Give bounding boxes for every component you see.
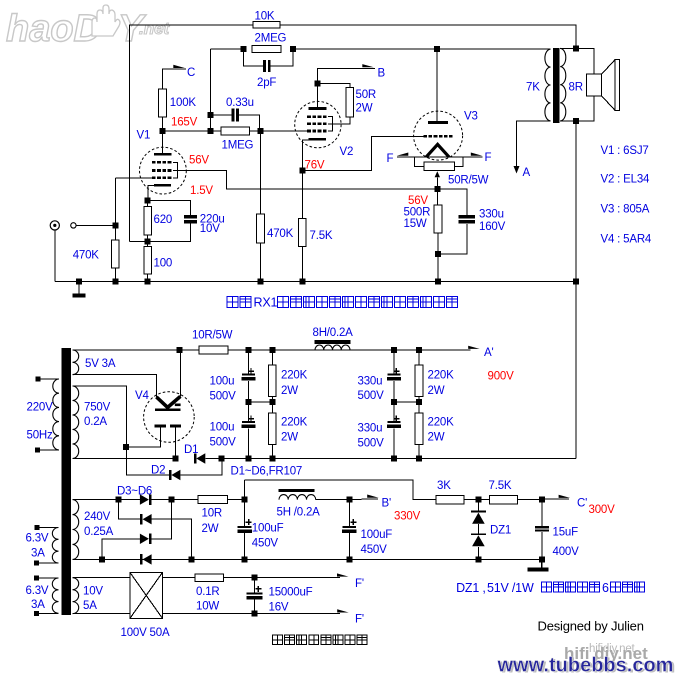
svg-text:500V: 500V [358, 437, 385, 449]
wire secondary top to speaker [576, 48, 594, 74]
wire V4 right plate lead [175, 428, 177, 459]
wire secondary bottom to speaker [576, 96, 594, 121]
wire 1MEG right to V2 grid [250, 130, 308, 132]
svg-text:B: B [378, 68, 386, 80]
svg-text:V2: V2 [340, 146, 354, 158]
wire 50R to screen grid [328, 117, 350, 124]
svg-text:6.3V: 6.3V [26, 585, 49, 597]
node 100u bottom [246, 456, 252, 462]
wire right vertical to ground rails [575, 121, 577, 459]
node 100 bottom on ground rail [145, 279, 151, 285]
wire 2pF loop [243, 49, 263, 66]
wire D1 to minus node [205, 458, 221, 460]
svg-text:165V: 165V [171, 117, 198, 129]
svg-text:500V: 500V [210, 390, 237, 402]
transformer PT 10V winding [73, 578, 79, 614]
svg-text:2W: 2W [202, 523, 219, 535]
resistor 100K [159, 89, 167, 117]
svg-text:haoD: haoD [6, 8, 101, 50]
wire row2 [119, 500, 140, 520]
svg-text:330V: 330V [394, 510, 421, 522]
svg-text:15W: 15W [404, 218, 427, 230]
svg-text:15000uF: 15000uF [269, 586, 313, 598]
tube V3 plate bar [428, 121, 448, 124]
svg-text:C': C' [577, 498, 587, 510]
wire D4 right down to minus [152, 519, 192, 559]
terminal 6.3V-1 top [35, 525, 40, 530]
terminal 6.3V-2 top [34, 576, 39, 581]
arrow F' top [337, 573, 349, 576]
resistor 50R 2W screen [346, 88, 354, 118]
capacitor 330u 500V upper [393, 350, 395, 374]
svg-text:450V: 450V [252, 537, 279, 549]
wire V2 cathode to 7.5K [301, 170, 303, 218]
svg-text:100u: 100u [210, 375, 235, 387]
node 2MEG left [240, 46, 246, 52]
diode D4 [140, 514, 143, 524]
transformer OPT secondary winding 8R [560, 48, 566, 121]
resistor 220K upper right [418, 350, 420, 365]
capacitor 100u 500V lower [248, 402, 250, 421]
capacitor 330u 160V [459, 215, 476, 219]
wire 240V top row1 [73, 499, 140, 501]
wire 0.33u right lead [239, 115, 260, 131]
svg-text:330u: 330u [479, 209, 504, 221]
node bridge plus [169, 497, 175, 503]
wire 0.1R to F' [224, 577, 340, 579]
capacitor 2pF [263, 60, 266, 72]
arrow B' [367, 495, 379, 498]
diode D2 [169, 470, 172, 480]
capacitor 100uF 450V second [348, 500, 350, 526]
svg-text:V3: V3 [464, 111, 478, 123]
svg-text:10R/5W: 10R/5W [192, 330, 233, 342]
transformer PT 6.3V winding 2 [52, 578, 58, 613]
svg-text:1MEG: 1MEG [222, 139, 254, 151]
svg-text:6.3V: 6.3V [26, 533, 49, 545]
svg-text:2W: 2W [281, 385, 298, 397]
svg-text:500V: 500V [210, 436, 237, 448]
svg-text:10K: 10K [255, 11, 275, 23]
node 500R bottom [435, 251, 441, 257]
wire V1 grid input [116, 177, 152, 179]
wire ground rail [55, 281, 576, 283]
svg-text:10V: 10V [200, 223, 220, 235]
tube V3 envelope [414, 111, 463, 160]
svg-text:7.5K: 7.5K [310, 230, 333, 242]
svg-text:3K: 3K [437, 480, 451, 492]
terminal 220V top [36, 377, 41, 382]
speaker [587, 74, 602, 96]
wire hum pot bracket left [414, 157, 424, 167]
wire hum pot bracket right [454, 157, 463, 167]
svg-text:400V: 400V [553, 546, 580, 558]
transformer OPT primary winding 7K [545, 49, 551, 121]
svg-text:A': A' [484, 347, 493, 359]
node 0.33u left [208, 112, 214, 118]
wire input node up to grid [115, 178, 117, 226]
wire 330u 160V loop [437, 189, 467, 215]
svg-text:100uF: 100uF [361, 529, 393, 541]
node V1 plate junction [159, 128, 165, 134]
svg-text:B': B' [382, 498, 391, 510]
svg-text:500R: 500R [404, 207, 431, 219]
wire primary bottom to A [517, 121, 551, 167]
capacitor 220u [184, 215, 197, 218]
wire 620 leads [147, 200, 149, 206]
wire C' arrow [542, 498, 569, 500]
wire caps mid link right [394, 401, 419, 403]
svg-text:220K: 220K [281, 369, 308, 381]
node C' [539, 497, 545, 503]
transformer PT 6.3V winding 1 [52, 528, 58, 564]
svg-text:V4 : 5AR4: V4 : 5AR4 [601, 234, 652, 246]
zener DZ1 string [477, 500, 479, 511]
node 220K1 top [269, 347, 275, 353]
svg-text:8R: 8R [569, 82, 583, 94]
watermark haoDIY.net logo [6, 5, 171, 50]
node caps mid right [391, 399, 397, 405]
node input [113, 222, 119, 228]
svg-text:6: 6 [602, 581, 609, 595]
node 220K3 top [416, 347, 422, 353]
wire 7.5K bottom [301, 247, 303, 282]
svg-text:100V 50A: 100V 50A [121, 627, 170, 639]
wire V2 cathode to V3 grid [302, 136, 413, 170]
svg-text:3A: 3A [31, 548, 45, 560]
svg-text:1.5V: 1.5V [190, 185, 213, 197]
wire B+ rail to A' [180, 349, 471, 351]
node 15000uF top [252, 575, 258, 581]
node DZ1 top [475, 497, 481, 503]
node row1 left [116, 497, 122, 503]
node ground symbol junction [76, 279, 82, 285]
node 7.5K bottom [299, 279, 305, 285]
transformer OPT core [553, 48, 560, 123]
svg-text:620: 620 [154, 214, 173, 226]
diode D1 [194, 453, 197, 463]
node 2MEG right [290, 46, 296, 52]
capacitor 15uF 400V [541, 500, 543, 527]
node V2 cathode [299, 167, 305, 173]
svg-text:56V: 56V [189, 155, 209, 167]
svg-text:7.5K: 7.5K [489, 480, 512, 492]
svg-text:450V: 450V [361, 544, 388, 556]
wire 220K ll bottom [271, 444, 273, 458]
svg-text:8H/0.2A: 8H/0.2A [313, 327, 354, 339]
tube V2 grid row2 screen [307, 123, 311, 126]
svg-text:.net: .net [139, 19, 171, 38]
resistor 2MEG [252, 46, 281, 53]
tube V1 envelope [140, 147, 187, 194]
potentiometer 50R/5W hum [424, 162, 454, 170]
resistor 7.5K cathode [299, 219, 307, 247]
node V1 cathode [145, 197, 151, 203]
arrow C [173, 65, 185, 68]
input jack [50, 221, 59, 230]
wire 2MEG right to V3 plate to OPT primary [293, 48, 550, 50]
wire jack ground drop [54, 230, 56, 282]
svg-text:3A: 3A [31, 599, 45, 611]
wire 500R leads [436, 189, 438, 205]
wire 10V bottom line [73, 613, 131, 615]
wire V1 cathode lead [148, 185, 154, 200]
svg-text:100u: 100u [210, 422, 235, 434]
svg-text:300V: 300V [589, 504, 616, 516]
wire 100K to plate node [161, 117, 163, 131]
svg-text:2W: 2W [428, 431, 445, 443]
resistor 500R 15W [434, 205, 442, 233]
tube V2 envelope [295, 101, 341, 147]
resistor 220K lower right [418, 402, 420, 413]
svg-text:10R: 10R [202, 508, 223, 520]
wire D3 to plus node [151, 499, 171, 501]
node 100uF1 bottom [242, 556, 248, 562]
svg-text:160V: 160V [479, 221, 506, 233]
transformer PT 5V winding [73, 350, 79, 375]
node 1MEG left [208, 128, 214, 134]
wire D2 loop [127, 447, 169, 475]
svg-text:DZ1 ,: DZ1 , [456, 581, 486, 595]
node ground rail V3 [435, 279, 441, 285]
svg-text:A: A [523, 167, 531, 179]
resistor 620 [144, 206, 152, 235]
node secondary top [573, 45, 579, 51]
svg-text:DZ1: DZ1 [490, 525, 511, 537]
choke 8H/0.2A [315, 340, 351, 344]
wire 5V top to B+ rail [73, 349, 180, 351]
transformer PT 750V winding [73, 386, 79, 459]
node ground rail right corner [573, 279, 579, 285]
tube V2 grid row3 [307, 130, 311, 133]
svg-text:RX1: RX1 [254, 296, 278, 310]
resistor 470K V2 grid leak [257, 214, 265, 243]
node 220K lr bottom [416, 456, 422, 462]
svg-text:220V: 220V [27, 401, 54, 413]
resistor 100 [144, 247, 152, 275]
resistor 7.5K screen [489, 495, 517, 504]
tube V4 bar below filament [155, 408, 180, 411]
wire input node down to 470K [115, 225, 117, 240]
tube V4 filament V shape [156, 396, 180, 407]
svg-text:330u: 330u [358, 375, 383, 387]
svg-text:16V: 16V [269, 602, 289, 614]
wire caps mid link left [249, 401, 273, 403]
svg-text:5A: 5A [83, 600, 97, 612]
svg-text:10V: 10V [83, 585, 103, 597]
arrow C' [559, 495, 571, 498]
wire D2 to minus node [180, 459, 221, 476]
svg-text:7K: 7K [526, 82, 540, 94]
tube V3 filament [426, 144, 449, 157]
svg-text:750V: 750V [84, 401, 111, 413]
svg-text:V1: V1 [137, 129, 151, 141]
node B' filter input [242, 497, 248, 503]
svg-text:F': F' [355, 614, 364, 626]
wire 0.33u left lead [211, 114, 232, 116]
resistor 10K (feedback) [253, 22, 280, 28]
tube V2 cathode bar [309, 138, 326, 141]
wire 5V bottom to V4 filament [73, 375, 157, 397]
svg-text:500V: 500V [358, 390, 385, 402]
wire box bottom to F' [162, 613, 340, 615]
svg-text:D2: D2 [151, 465, 165, 477]
svg-text:220K: 220K [428, 417, 455, 429]
resistor 10R/5W [199, 346, 228, 354]
note mono design text [273, 635, 368, 645]
svg-text:100uF: 100uF [252, 523, 284, 535]
node bridge minus [188, 556, 194, 562]
svg-text:51V /1W: 51V /1W [487, 581, 534, 595]
wire 100 leads [147, 242, 149, 247]
wire 220K lr bottom [418, 444, 420, 458]
wire 3K to DZ1 node [464, 499, 489, 501]
tube V2 grid row1 [307, 115, 311, 118]
svg-text:50R/5W: 50R/5W [448, 175, 489, 187]
resistor 10R 2W [198, 496, 228, 504]
wire 7.5K to C' node [518, 499, 542, 501]
svg-text:5V 3A: 5V 3A [85, 358, 116, 370]
svg-text:C: C [187, 67, 195, 79]
svg-text:2W: 2W [428, 385, 445, 397]
svg-text:56V: 56V [408, 195, 428, 207]
tube V1 cathode bar [154, 184, 171, 187]
wire V1 plate node line y=131 [162, 130, 221, 132]
regulator 100V 50A box [130, 573, 162, 619]
resistor 470K input [112, 240, 120, 268]
wire minus rail to filters [222, 458, 576, 460]
svg-text:2MEG: 2MEG [255, 33, 287, 45]
capacitor 15000uF 16V [254, 578, 256, 593]
svg-text:100K: 100K [170, 97, 197, 109]
wire 2MEG line left segment [211, 48, 244, 50]
svg-text:0.2A: 0.2A [84, 416, 107, 428]
node 220K mid right [416, 399, 422, 405]
node 330u bottom [391, 456, 397, 462]
wire to ground rail [437, 254, 439, 282]
tube V2 row1-row3 tie [328, 117, 333, 131]
svg-text:F': F' [355, 578, 364, 590]
resistor 1MEG [221, 127, 249, 135]
svg-text:0.25A: 0.25A [84, 526, 114, 538]
choke 5H/0.2A [279, 489, 315, 492]
arrow F left [397, 153, 409, 156]
arrow A' [468, 346, 480, 349]
wire 750V bottom lead / D1 line [73, 458, 176, 460]
svg-text:V3 : 805A: V3 : 805A [601, 203, 650, 215]
transformer PT 240V winding [73, 500, 79, 560]
arrow B [362, 64, 374, 67]
transformer PT core [62, 348, 72, 615]
tube V4 plate bars [155, 425, 166, 428]
svg-text:F: F [387, 153, 394, 165]
svg-text:5H /0.2A: 5H /0.2A [277, 507, 321, 519]
tube V2 plate bar [309, 107, 327, 110]
svg-text:Designed by Julien: Designed by Julien [538, 619, 644, 634]
wire plate to 50R [317, 84, 350, 88]
wire C supply branch [162, 69, 185, 89]
terminal 220V bottom [35, 448, 40, 453]
node V2 plate [314, 81, 320, 87]
node 750V bottom / right plate [173, 456, 179, 462]
node 1MEG right [258, 128, 264, 134]
wire V2 cathode lead [302, 140, 308, 171]
node 750V top / left plate [123, 444, 129, 450]
wire secondary top [560, 47, 576, 49]
svg-text:50R: 50R [356, 89, 377, 101]
node secondary bottom [573, 118, 579, 124]
tube V1 plate bar [154, 153, 171, 155]
svg-text:2W: 2W [281, 431, 298, 443]
tube V1 grid row2 screen [152, 169, 156, 172]
node 470K bottom [113, 279, 119, 285]
arrow F' bottom [337, 609, 349, 612]
node rectifier minus [219, 456, 225, 462]
svg-text:330u: 330u [358, 423, 383, 435]
node V3 plate on feedback line [434, 46, 440, 52]
diode D6 [140, 554, 143, 564]
note adjust RX1 line [227, 297, 251, 308]
node caps mid left [246, 399, 252, 405]
svg-text:220K: 220K [281, 417, 308, 429]
diode D3 [140, 494, 149, 504]
wire B branch [317, 68, 375, 83]
wire choke to B' node [316, 499, 350, 501]
node B' output [346, 497, 352, 503]
svg-text:2pF: 2pF [257, 77, 276, 89]
arrow F right [471, 153, 483, 156]
node 620/100 junction [145, 239, 151, 245]
node filter1 top [246, 347, 252, 353]
svg-text:900V: 900V [488, 370, 515, 382]
tube V1 row1-row3 tie [173, 162, 178, 177]
wire D5 up to plus [151, 500, 171, 539]
svg-text:0.1R: 0.1R [196, 586, 220, 598]
resistor 0.1R 10W [195, 574, 224, 582]
wire feedback corner to cathode node [130, 241, 148, 243]
wire V4 left plate lead [127, 428, 161, 447]
svg-text:www.tubebbs.com: www.tubebbs.com [497, 655, 674, 675]
svg-text:V4: V4 [135, 390, 149, 402]
node 15000uF bottom [252, 611, 258, 617]
wire 10R to filter node [228, 499, 245, 501]
ground symbol B' rail [541, 559, 543, 567]
terminal 6.3V-2 bottom [34, 611, 39, 616]
wire V1 plate lead [161, 131, 163, 153]
svg-text:15uF: 15uF [553, 527, 579, 539]
wire V2 plate lead [316, 84, 318, 108]
wire 750V top lead [73, 386, 127, 447]
svg-text:50Hz: 50Hz [27, 429, 53, 441]
svg-text:V2 : EL34: V2 : EL34 [601, 174, 651, 186]
node 56V filament bias [434, 186, 440, 192]
resistor 220K lower left [271, 402, 273, 413]
wire V3 grid left [413, 135, 424, 137]
capacitor 0.33u [232, 109, 235, 122]
svg-text:D1~D6,FR107: D1~D6,FR107 [231, 466, 303, 478]
svg-text:240V: 240V [84, 511, 111, 523]
svg-text:10W: 10W [196, 601, 219, 613]
tube V4 envelope [144, 392, 195, 443]
wire wiper to 56V node [436, 177, 438, 189]
node filter2 top [391, 347, 397, 353]
svg-text:76V: 76V [305, 159, 325, 171]
svg-text:2W: 2W [356, 103, 373, 115]
pot wiper arrow [435, 171, 440, 177]
wire B' arrow [349, 498, 378, 501]
wire 470K-V2grid vertical [260, 131, 262, 214]
node B+ takeoff [177, 347, 183, 353]
